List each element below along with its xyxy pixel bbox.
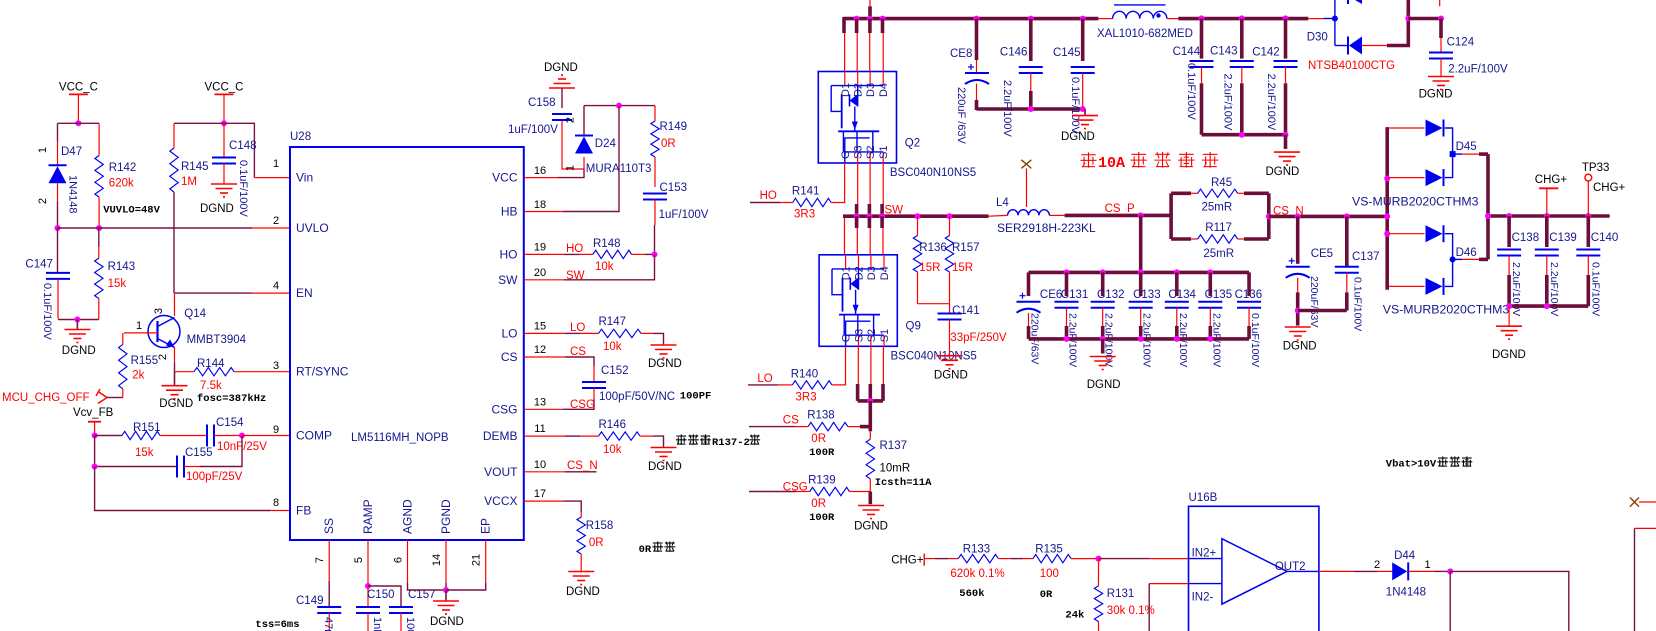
svg-text:R155: R155 [131, 355, 159, 367]
svg-text:IN2-: IN2- [1192, 592, 1214, 604]
wire HO stub [750, 202, 780, 204]
ground DGND under R158 [568, 572, 594, 585]
svg-text:1: 1 [273, 158, 279, 170]
svg-text:2.2uF/100V: 2.2uF/100V [1001, 80, 1013, 138]
wire CS to C152 [565, 357, 594, 366]
svg-text:EN: EN [296, 286, 313, 300]
wire C131 bottom stub [1065, 326, 1069, 339]
resistor R149 [651, 106, 659, 187]
junction [92, 464, 98, 470]
svg-text:R117: R117 [1205, 222, 1232, 234]
wire IN2+ stub [1149, 558, 1188, 560]
svg-text:15: 15 [534, 321, 546, 333]
wire HB pin stub [524, 211, 563, 213]
wire C134 bottom stub [1175, 326, 1179, 339]
wire C135 top stub [1209, 272, 1213, 296]
diode D44 [1392, 562, 1408, 580]
wire D30 out lower [1362, 45, 1387, 47]
svg-text:3: 3 [153, 308, 165, 314]
wire D45a cathode [1445, 128, 1453, 154]
svg-text:2.2uF/100V: 2.2uF/100V [1448, 64, 1508, 76]
wire CE5 bottom stub [1296, 292, 1300, 325]
wire CE5 top stub [1296, 216, 1300, 263]
svg-text:IN2+: IN2+ [1192, 548, 1217, 560]
wire to C155 [95, 436, 177, 467]
wire Q9 S1 stub [882, 346, 884, 384]
junction [365, 583, 371, 589]
wire C136 bottom lead [1248, 308, 1250, 326]
junction [1544, 213, 1550, 219]
svg-text:3: 3 [273, 360, 279, 372]
resistor R117 [1198, 235, 1238, 243]
svg-text:MCU_CHG_OFF: MCU_CHG_OFF [2, 392, 90, 404]
wire R117 right [1238, 238, 1244, 240]
svg-text:AGND: AGND [401, 499, 415, 534]
wire VCC boot rail [584, 105, 655, 107]
junction [1207, 269, 1213, 275]
junction [75, 120, 81, 126]
wire C142 bottom lead [1285, 67, 1287, 83]
svg-text:HO: HO [760, 190, 777, 202]
svg-text:Vbat>10V: Vbat>10V [1386, 459, 1437, 471]
junction [1438, 16, 1444, 22]
svg-text:D45: D45 [1456, 141, 1477, 153]
svg-text:R142: R142 [109, 162, 137, 174]
capacitor C149 [317, 607, 341, 613]
wire R136 R157 join [918, 303, 950, 305]
junction [96, 225, 102, 231]
svg-text:R131: R131 [1107, 588, 1135, 600]
wire C158 to gnd [561, 88, 563, 108]
wire IN2- inside [1189, 583, 1222, 585]
port arrow MCU_CHG_OFF [96, 389, 107, 404]
svg-text:C131: C131 [1061, 289, 1089, 301]
svg-text:10k: 10k [595, 261, 614, 273]
junction [880, 16, 886, 22]
svg-text:DGND: DGND [200, 203, 234, 215]
svg-text:BSC040N10NS5: BSC040N10NS5 [890, 167, 976, 179]
junction [1544, 303, 1550, 309]
svg-text:VS-MURB2020CTHM3: VS-MURB2020CTHM3 [1352, 195, 1479, 209]
svg-text:220uF/63V: 220uF/63V [1308, 276, 1320, 327]
wire C135 bottom lead [1209, 308, 1211, 326]
svg-text:DGND: DGND [544, 62, 578, 74]
junction [1080, 106, 1086, 112]
svg-text:CHG+: CHG+ [891, 555, 924, 567]
wire C133 top stub [1139, 272, 1143, 296]
svg-text:0R: 0R [639, 544, 652, 556]
svg-text:S2: S2 [865, 146, 877, 159]
wire bus stub Q2 D2 [855, 19, 859, 33]
junction [443, 587, 449, 593]
junction [652, 251, 658, 257]
svg-text:5: 5 [353, 557, 365, 563]
wire C131 top stub [1065, 272, 1069, 296]
power symbol VCC_C (second) [215, 94, 234, 121]
text shichongdian [1437, 456, 1472, 466]
svg-text:Q9: Q9 [906, 321, 921, 333]
wire C150 bottom lead [367, 613, 369, 631]
wire CE6 bottom stub [1027, 326, 1031, 339]
svg-text:DGND: DGND [648, 358, 682, 370]
wire C149 bottom lead [328, 613, 330, 631]
wire RAMP pin stub [367, 540, 369, 607]
wire C124 top lead [1440, 38, 1442, 53]
wire RAMP to C157 [368, 586, 401, 607]
capacitor C133 [1129, 302, 1153, 308]
wire VIN2 bus [1178, 17, 1308, 21]
wire CHG vertical [1486, 154, 1490, 259]
wire gnd join [58, 319, 99, 321]
wire VCC_C node [58, 122, 100, 124]
junction [1174, 336, 1180, 342]
wire D44 out [1409, 570, 1435, 572]
svg-text:1nF: 1nF [371, 617, 383, 631]
diode D24 [575, 136, 593, 154]
svg-text:R148: R148 [593, 238, 621, 250]
svg-text:100PF: 100PF [680, 390, 712, 402]
wire IN2- stub [1149, 583, 1188, 585]
svg-text:MMBT3904: MMBT3904 [187, 334, 247, 346]
wire D24 cathode up [583, 106, 585, 136]
capacitor C138 [1497, 250, 1521, 256]
wire UVLO net [58, 227, 252, 229]
svg-text:C146: C146 [1000, 47, 1028, 59]
svg-text:C142: C142 [1252, 46, 1280, 58]
wire Q14 collector lead [174, 293, 176, 316]
svg-text:2: 2 [273, 215, 279, 227]
svg-text:C154: C154 [216, 417, 244, 429]
svg-text:0.1uF/100V: 0.1uF/100V [1352, 277, 1364, 331]
svg-text:560k: 560k [959, 588, 984, 600]
junction [1028, 16, 1034, 22]
svg-text:Vin: Vin [296, 171, 313, 185]
junction [1506, 213, 1512, 219]
wire to MCU_CHG_OFF arrow [107, 397, 123, 399]
junction [1207, 336, 1213, 342]
svg-text:1M: 1M [181, 176, 197, 188]
wire C132 bottom stub [1101, 326, 1105, 339]
wire R139 to gnd node [849, 491, 870, 493]
wire gnd lead [1508, 306, 1510, 326]
wire D30 upper out [1407, 0, 1411, 19]
wire C142 top stub [1284, 19, 1288, 59]
wire CS pin stub [524, 356, 565, 358]
junction [1064, 269, 1070, 275]
wire bus to L5 [1098, 18, 1112, 20]
wire C140 bottom stub [1587, 275, 1591, 306]
svg-text:CE5: CE5 [1311, 248, 1333, 260]
svg-text:R158: R158 [586, 520, 614, 532]
wire Q9 D2 stub [855, 216, 859, 228]
svg-text:10: 10 [534, 459, 546, 471]
svg-text:SW: SW [566, 270, 585, 282]
wire C138 top stub [1507, 216, 1511, 247]
wire CS_P down [1139, 215, 1143, 272]
wire CE8 bottom stub [975, 100, 979, 110]
svg-text:0.1uF/100V: 0.1uF/100V [237, 160, 249, 218]
wire CHG+ rail [1488, 214, 1610, 218]
capacitor C158 [552, 114, 572, 120]
wire R141 to Q2 gate [831, 163, 845, 203]
capacitor C137 [1335, 267, 1359, 273]
wire PGND pin stub [445, 540, 447, 583]
resistor R158 [577, 512, 585, 572]
inductor core line [1114, 4, 1166, 6]
resistor R140 [778, 381, 832, 389]
svg-text:D2: D2 [854, 266, 866, 280]
junction [1283, 15, 1289, 21]
svg-text:DGND: DGND [430, 616, 464, 628]
junction [1080, 16, 1086, 22]
wire cap gnd bus 2 [1202, 133, 1286, 137]
capacitor C140 [1576, 250, 1600, 256]
svg-text:C137: C137 [1352, 251, 1380, 263]
svg-text:0R: 0R [811, 498, 826, 510]
text dianzu [652, 541, 675, 551]
svg-text:VCC_C: VCC_C [205, 82, 244, 94]
svg-text:R139: R139 [808, 475, 836, 487]
wire C155 to COMP node [200, 436, 242, 467]
svg-text:R135: R135 [1035, 543, 1063, 555]
wire CE6 top stub [1027, 272, 1031, 296]
wire R143 top lead [98, 228, 100, 247]
svg-text:PGND: PGND [439, 499, 453, 534]
svg-text:1: 1 [1424, 559, 1430, 571]
svg-text:D3: D3 [866, 266, 878, 280]
svg-text:2: 2 [1374, 559, 1380, 571]
svg-text:fosc=387kHz: fosc=387kHz [197, 393, 266, 405]
wire CS_N rail [1269, 215, 1387, 219]
svg-text:9: 9 [273, 424, 279, 436]
svg-text:C147: C147 [25, 259, 53, 271]
junction [1447, 568, 1453, 574]
wire VOUT pin stub [524, 471, 565, 473]
ground DGND under CE5 [1285, 327, 1311, 340]
resistor R137 [866, 431, 874, 491]
wire VCC to D24 [558, 169, 584, 178]
junction [854, 213, 860, 219]
svg-text:S1: S1 [878, 146, 890, 159]
svg-text:VCCX: VCCX [484, 494, 517, 508]
wire C139 bottom lead [1546, 256, 1548, 276]
junction [1239, 15, 1245, 21]
svg-text:CS_N: CS_N [567, 460, 598, 472]
svg-text:R145: R145 [181, 161, 209, 173]
svg-text:C158: C158 [528, 97, 556, 109]
wire VCCX pin stub [524, 500, 564, 502]
transistor Q14 [148, 316, 180, 348]
junction [1344, 213, 1350, 219]
svg-text:DGND: DGND [1087, 379, 1121, 391]
ground DGND under cap bank [1090, 357, 1116, 370]
svg-text:7.5k: 7.5k [200, 380, 222, 392]
junction [1096, 556, 1102, 562]
wire D44 node down [1449, 571, 1451, 631]
wire C133 bottom stub [1139, 326, 1143, 339]
wire C152 to CSG [563, 399, 594, 409]
wire VCCX to R158 [563, 501, 581, 512]
junction [1295, 213, 1301, 219]
resistor R148 [580, 250, 645, 258]
junction [1064, 336, 1070, 342]
wire R140 to Q9 gate [832, 346, 846, 385]
svg-text:21: 21 [471, 554, 483, 566]
svg-text:C138: C138 [1512, 232, 1540, 244]
svg-text:2.2uF/100V: 2.2uF/100V [1222, 74, 1234, 132]
wire D30 anode lead lower [1335, 45, 1348, 47]
wire HB to boot rail [563, 106, 619, 212]
resistor R144 [194, 368, 290, 376]
svg-text:25mR: 25mR [1202, 202, 1233, 214]
svg-text:VS-MURB2020CTHM3: VS-MURB2020CTHM3 [1383, 303, 1510, 317]
diode D30 lower half [1348, 37, 1362, 55]
capacitor CE6 [1017, 293, 1041, 313]
wire Q9 source bus [858, 399, 883, 403]
svg-text:C148: C148 [229, 140, 257, 152]
wire AGND to gnd [408, 583, 447, 590]
wire LO [565, 332, 580, 334]
wire R143 bottom lead [98, 299, 100, 320]
wire OUT2 inside [1287, 570, 1319, 572]
wire to C141 [949, 304, 951, 314]
svg-text:R144: R144 [197, 358, 225, 370]
svg-text:S3: S3 [854, 329, 866, 342]
capacitor C150 [356, 607, 380, 613]
svg-text:Vcv_FB: Vcv_FB [73, 407, 114, 419]
junction [854, 16, 860, 22]
wire HO pin stub [524, 253, 564, 255]
svg-text:4: 4 [273, 280, 279, 292]
wire gnd stub [1284, 135, 1288, 149]
wire CHG+ to R133 [924, 558, 935, 560]
wire CE5 C137 join [1298, 309, 1347, 313]
svg-text:16: 16 [534, 165, 546, 177]
wire VIN feed from top [869, 0, 871, 6]
wire C152 bottom lead [593, 388, 595, 399]
wire to D47 [57, 123, 59, 141]
op IC U28 body [290, 147, 524, 540]
wire C144 top stub [1200, 19, 1204, 59]
svg-text:CE8: CE8 [950, 48, 972, 60]
capacitor C152 [582, 382, 606, 388]
wire D46 out [1453, 258, 1462, 260]
capacitor C154 [207, 425, 214, 447]
junction [1295, 308, 1301, 314]
wire UVLO to C147 [57, 228, 59, 273]
svg-text:VCC: VCC [492, 171, 518, 185]
wire C135 bottom stub [1209, 326, 1213, 339]
svg-text:DGND: DGND [159, 398, 193, 410]
svg-text:Q14: Q14 [184, 308, 206, 320]
wire R144 left lead [175, 371, 195, 373]
wire Q2 S3 stub [857, 163, 859, 204]
wire C146 bottom lead [1030, 73, 1032, 91]
wire bus to D30 [1308, 18, 1323, 20]
junction [1100, 269, 1106, 275]
svg-text:100R: 100R [809, 512, 835, 524]
ground DGND under R137 [858, 506, 884, 519]
wire C139 bottom stub [1545, 275, 1549, 306]
wire C154 right lead [214, 435, 242, 437]
junction [239, 433, 245, 439]
svg-text:SS: SS [322, 518, 336, 534]
junction D45 cathode dot [1450, 151, 1456, 157]
wire CE8 bottom lead [976, 84, 978, 101]
wire L5 to bus [1167, 18, 1178, 20]
svg-text:C132: C132 [1097, 289, 1125, 301]
wire cap gnd bus [977, 107, 1083, 111]
svg-text:DGND: DGND [648, 461, 682, 473]
svg-text:C149: C149 [296, 595, 324, 607]
junction [55, 225, 61, 231]
wire C155 right lead [184, 466, 200, 468]
wire bus stub Q2 D3 [868, 19, 872, 33]
wire EN net [175, 292, 252, 294]
svg-text:8: 8 [273, 497, 279, 509]
capacitor C135 [1198, 302, 1222, 308]
wire EP pin stub [485, 540, 487, 583]
wire C124 bottom lead [1440, 59, 1442, 77]
resistor R136 [913, 216, 921, 304]
svg-text:R133: R133 [963, 543, 991, 555]
wire R133 to R135 [998, 558, 1011, 560]
wire EN pin stub [252, 292, 290, 294]
wire bus stub Q2 D4 [881, 19, 885, 33]
svg-text:D3: D3 [865, 83, 877, 97]
svg-text:3R3: 3R3 [794, 209, 815, 221]
svg-text:Q2: Q2 [905, 137, 920, 149]
wire Q9 D3 stub [868, 216, 872, 228]
svg-text:0.1uF/100V: 0.1uF/100V [1589, 262, 1601, 316]
wire right edge stub [1639, 501, 1656, 503]
text an10A part1 [1081, 152, 1097, 167]
wire C137 bottom lead [1346, 273, 1348, 293]
svg-text:12: 12 [534, 344, 546, 356]
op-amp U16B triangle [1222, 539, 1287, 604]
svg-text:2.2uF/100V: 2.2uF/100V [1548, 262, 1560, 316]
junction [915, 213, 921, 219]
svg-text:15k: 15k [108, 278, 127, 290]
junction [1384, 213, 1390, 219]
svg-text:U28: U28 [290, 131, 311, 143]
wire right edge corner [1635, 527, 1656, 529]
svg-text:R45: R45 [1211, 177, 1232, 189]
svg-text:DGND: DGND [1266, 166, 1300, 178]
svg-text:RT/SYNC: RT/SYNC [296, 365, 349, 379]
svg-text:100p: 100p [404, 617, 416, 631]
svg-text:HB: HB [501, 205, 518, 219]
svg-text:CSG: CSG [491, 402, 517, 416]
transistor Q9 [819, 255, 897, 346]
wire C138 bottom stub [1507, 275, 1511, 306]
testpoint TP33 circle [1585, 174, 1592, 181]
junction [1138, 269, 1144, 275]
svg-text:10mR: 10mR [880, 463, 911, 475]
svg-text:2.2uF/100V: 2.2uF/100V [1265, 74, 1277, 132]
wire Vin pin stub [253, 174, 255, 178]
inductor XAL1010-682MED [1113, 11, 1167, 18]
junction [1174, 269, 1180, 275]
power symbol VCC_C (left) [69, 94, 88, 121]
wire PGND join [445, 583, 447, 590]
capacitor C143 [1230, 61, 1254, 67]
wire SW to HO node [564, 254, 655, 279]
wire C136 bottom stub [1247, 326, 1251, 339]
svg-text:10A: 10A [1098, 155, 1125, 172]
svg-text:D1: D1 [841, 266, 853, 280]
svg-text:0R: 0R [811, 433, 826, 445]
